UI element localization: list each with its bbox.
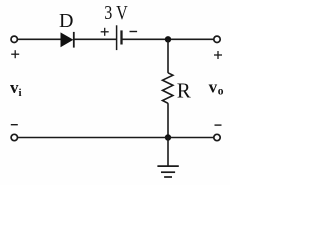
ground bar 3 bbox=[164, 176, 172, 178]
wire top: diode cathode to battery bbox=[74, 38, 117, 40]
battery 3V: long positive plate bbox=[116, 25, 118, 50]
terminal top-left (vi +) bbox=[11, 36, 17, 42]
resistor R zigzag bbox=[163, 73, 173, 104]
junction node top bbox=[165, 36, 171, 42]
battery 3V: short negative plate bbox=[120, 30, 122, 44]
terminal bottom-left (vi -) bbox=[11, 134, 17, 140]
wire top: left terminal to diode anode bbox=[18, 38, 61, 40]
port plus top-left bbox=[11, 50, 19, 58]
wire: resistor to bottom junction bbox=[167, 103, 169, 137]
svg-text:R: R bbox=[177, 78, 191, 102]
svg-text:vi: vi bbox=[10, 78, 22, 99]
battery plus sign bbox=[101, 28, 109, 36]
svg-text:vo: vo bbox=[209, 78, 224, 98]
svg-text:3 V: 3 V bbox=[104, 2, 128, 24]
ground bar 2 bbox=[161, 171, 175, 173]
wire: top junction down to resistor bbox=[167, 39, 169, 73]
port minus bottom-right bbox=[215, 124, 222, 126]
ground stem bbox=[167, 138, 169, 167]
svg-text:D: D bbox=[59, 10, 73, 32]
terminal top-right (vo +) bbox=[214, 36, 220, 42]
diode D bbox=[61, 32, 74, 48]
wire top: battery to right terminal bbox=[122, 38, 214, 40]
port plus top-right bbox=[214, 51, 222, 59]
port minus bottom-left bbox=[11, 124, 18, 126]
ground bar 1 bbox=[157, 165, 178, 167]
junction node bottom bbox=[165, 134, 171, 140]
terminal bottom-right (vo -) bbox=[214, 134, 220, 140]
battery minus sign bbox=[130, 31, 138, 33]
wire bottom: left terminal to right terminal bbox=[18, 137, 214, 139]
